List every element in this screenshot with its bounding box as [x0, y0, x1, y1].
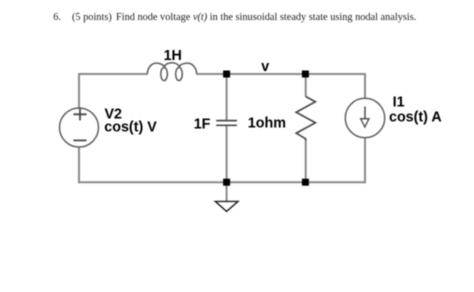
wire capacitor bottom stub — [226, 126, 228, 182]
voltage source V2 circle — [60, 108, 99, 147]
wire capacitor top stub — [226, 74, 228, 120]
wire resistor bottom stub — [305, 141, 307, 183]
node junction square top-right — [302, 71, 309, 78]
current source I1 circle — [345, 98, 384, 137]
wire ground stub — [226, 184, 228, 201]
node junction square top-left — [223, 71, 230, 78]
node junction square bottom-right — [302, 179, 309, 186]
voltage source minus sign — [73, 139, 86, 141]
wire right vertical upper — [364, 73, 366, 99]
current source arrow head — [361, 119, 369, 127]
wire left vertical lower — [78, 147, 80, 184]
wire right vertical lower — [364, 138, 366, 184]
svg-text:I1 cos(t) A: I1 cos(t) A — [389, 95, 442, 126]
resistor R1 zigzag — [296, 97, 315, 141]
inductor L1 coil — [147, 63, 196, 81]
capacitor C1 plates — [216, 121, 237, 126]
svg-text:v: v — [261, 59, 269, 75]
svg-text:1F: 1F — [194, 116, 211, 132]
svg-text:V2 cos(t) V: V2 cos(t) V — [104, 107, 157, 136]
node junction square bottom-left — [223, 179, 230, 186]
svg-text:1H: 1H — [164, 48, 182, 64]
wire bottom horizontal — [78, 181, 366, 183]
wire top-right horizontal — [197, 73, 367, 75]
ground symbol — [215, 201, 238, 211]
svg-text:6. (5 points) Find nod: 6. (5 points) Find node voltage v(t) in … — [53, 12, 416, 23]
wire left vertical upper — [78, 73, 80, 109]
svg-text:1ohm: 1ohm — [248, 115, 286, 131]
wire resistor top stub — [305, 74, 307, 97]
wire top-left horizontal — [78, 73, 148, 75]
current source arrow shaft — [364, 107, 366, 120]
voltage source plus sign — [73, 108, 86, 120]
